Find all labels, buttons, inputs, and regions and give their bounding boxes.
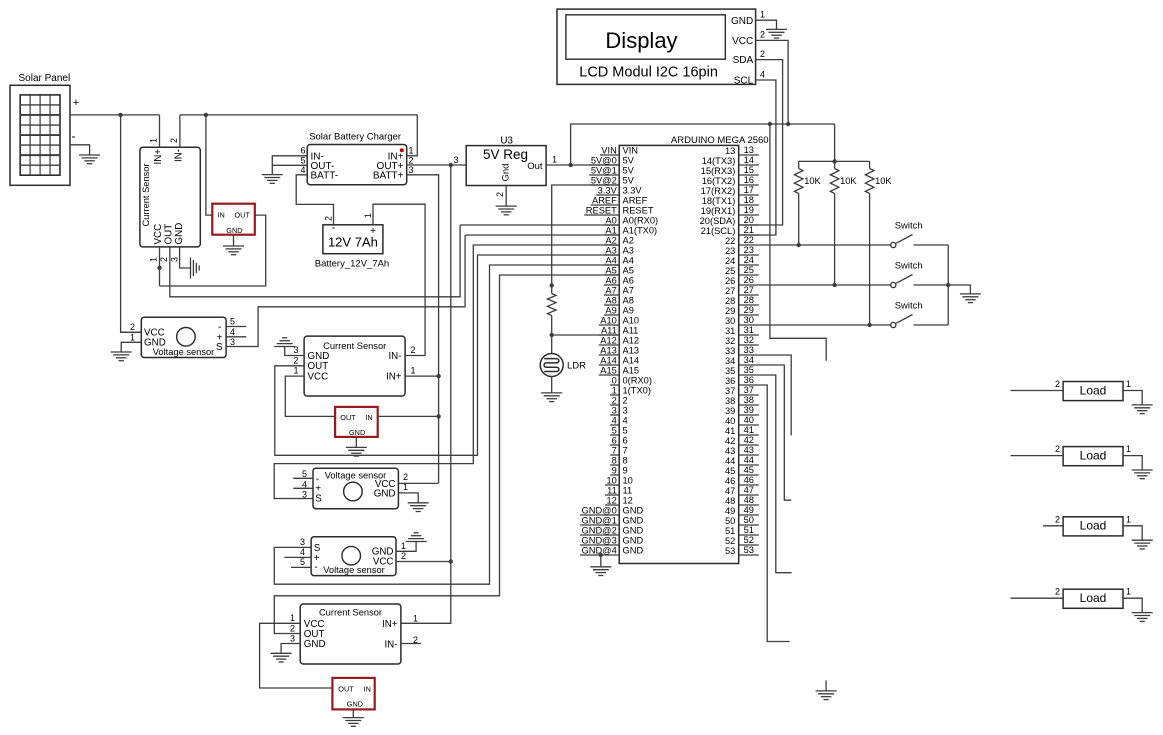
switch S3 label xyxy=(895,301,923,312)
svg-text:GND: GND xyxy=(347,700,363,709)
svg-text:33: 33 xyxy=(744,345,754,355)
svg-text:30: 30 xyxy=(744,315,754,325)
svg-text:46: 46 xyxy=(744,475,754,485)
svg-text:VIN: VIN xyxy=(601,146,617,156)
svg-text:4: 4 xyxy=(300,547,305,557)
display VCC wire to 5V rail xyxy=(756,40,789,124)
VS3 pin label VCC xyxy=(373,557,394,568)
wire pin row to switch S3 xyxy=(759,324,891,326)
CS3 pin 1 number xyxy=(290,613,295,623)
svg-text:1: 1 xyxy=(552,155,557,165)
VS1 pin 4 number xyxy=(230,327,235,337)
svg-text:SDA: SDA xyxy=(733,55,754,66)
wire A4 run + drop to VS3 S xyxy=(274,265,619,584)
M3 label GND xyxy=(347,700,363,709)
svg-text:35: 35 xyxy=(725,366,735,376)
VS2 pin label - (minus) xyxy=(316,474,319,485)
wire R1 bottom to switch row xyxy=(798,194,800,246)
svg-text:A4: A4 xyxy=(623,256,634,266)
ground M1 GND xyxy=(223,246,244,255)
svg-text:1: 1 xyxy=(1126,379,1131,389)
switch S2 label xyxy=(895,261,923,272)
VS1 circle xyxy=(177,328,196,347)
5V reg pin 2 number xyxy=(495,192,505,197)
svg-text:A15: A15 xyxy=(600,366,617,376)
wire CS2 GND to ground xyxy=(285,347,304,356)
svg-text:3: 3 xyxy=(454,155,459,165)
svg-text:Current Sensor: Current Sensor xyxy=(323,341,386,351)
svg-text:1: 1 xyxy=(1126,587,1131,597)
CS3 title xyxy=(319,608,382,618)
svg-text:48: 48 xyxy=(744,495,754,505)
svg-text:1: 1 xyxy=(149,257,159,262)
switch S1 label xyxy=(895,221,923,232)
switch S1 lever xyxy=(896,235,912,244)
VS2 pin label VCC xyxy=(375,479,396,490)
5V reg GND stem xyxy=(505,186,507,207)
VS2 pin 3 number xyxy=(302,489,307,499)
resistor R4 (LDR pullup) xyxy=(547,294,556,316)
load LD2 label xyxy=(1080,448,1107,462)
VS2 pin label S xyxy=(315,493,322,504)
svg-text:A11: A11 xyxy=(601,326,617,336)
node junction OUT+ / 5V net xyxy=(449,163,453,167)
VS3 circle xyxy=(342,546,361,565)
resistor R2 label 10K xyxy=(840,176,857,186)
load LD4 pin 2 number xyxy=(1055,587,1060,597)
svg-text:40: 40 xyxy=(744,415,754,425)
svg-text:1: 1 xyxy=(760,10,765,20)
svg-text:36: 36 xyxy=(725,376,735,386)
svg-text:22: 22 xyxy=(744,235,754,245)
wire charger IN- to ground xyxy=(272,156,307,175)
VS3 pin label GND xyxy=(372,547,394,558)
CS2 pin label VCC xyxy=(308,371,329,382)
load LD3 pin 2 number xyxy=(1055,514,1060,524)
svg-text:Switch: Switch xyxy=(895,301,923,312)
svg-text:6: 6 xyxy=(300,146,305,156)
svg-text:A13: A13 xyxy=(600,346,617,356)
charger pin label BATT- xyxy=(311,171,339,182)
5V reg U3 designator xyxy=(500,136,513,147)
regulator module M2 box xyxy=(335,407,378,437)
load LD1 label xyxy=(1080,383,1107,397)
svg-text:2: 2 xyxy=(293,355,298,365)
solar panel PV1 xyxy=(10,85,70,185)
svg-text:5V@1: 5V@1 xyxy=(591,166,617,176)
svg-text:3: 3 xyxy=(230,337,235,347)
VS3 pin 1 number xyxy=(401,541,406,551)
svg-text:Switch: Switch xyxy=(895,221,923,232)
svg-text:12V 7Ah: 12V 7Ah xyxy=(328,235,378,250)
svg-text:A5: A5 xyxy=(623,266,634,276)
svg-text:A10: A10 xyxy=(600,316,617,326)
svg-text:-: - xyxy=(314,562,317,573)
svg-text:39: 39 xyxy=(744,405,754,415)
svg-text:26: 26 xyxy=(744,275,754,285)
svg-text:S: S xyxy=(315,493,322,504)
svg-text:7: 7 xyxy=(623,446,628,456)
svg-text:IN: IN xyxy=(365,413,372,422)
ground isolated (bottom right) xyxy=(816,680,837,699)
VS2 pin 1 number xyxy=(403,482,408,492)
svg-text:26: 26 xyxy=(725,276,735,286)
load LD4 label xyxy=(1080,591,1107,605)
load LD1 box xyxy=(1063,382,1123,401)
wire to load LD1 xyxy=(1011,390,1064,392)
svg-text:2: 2 xyxy=(324,216,334,221)
svg-text:LCD Modul I2C 16pin: LCD Modul I2C 16pin xyxy=(579,65,718,81)
wire pin 35 dangling xyxy=(759,375,792,573)
node junction BATT+ / CS2 IN+ xyxy=(436,374,440,378)
svg-text:Battery_12V_7Ah: Battery_12V_7Ah xyxy=(315,259,389,270)
switch S3 right contact xyxy=(914,324,949,326)
svg-text:GND: GND xyxy=(349,428,365,437)
VS1 pin 5 number xyxy=(230,317,235,327)
resistor R1 10K lead top xyxy=(798,161,800,168)
CS1 pin 2 bottom number xyxy=(159,257,169,262)
switch S2 right contact xyxy=(914,284,949,286)
M2 label IN xyxy=(365,413,372,422)
svg-text:A12: A12 xyxy=(600,336,617,346)
CS3 pin label IN- xyxy=(384,639,397,650)
svg-text:IN: IN xyxy=(364,685,371,694)
svg-text:23: 23 xyxy=(744,245,754,255)
display outer box xyxy=(557,9,756,84)
svg-text:2: 2 xyxy=(403,472,408,482)
svg-text:42: 42 xyxy=(744,435,754,445)
VS1 pin label S xyxy=(216,342,223,353)
svg-text:A2: A2 xyxy=(605,236,616,246)
svg-text:10: 10 xyxy=(606,476,616,486)
arduino right pin labels and stubs xyxy=(700,145,759,556)
resistor R1 10K xyxy=(794,169,803,194)
voltage sensor VS1 box xyxy=(141,317,226,357)
node junction A11 tap xyxy=(550,333,554,337)
svg-text:2: 2 xyxy=(612,396,617,406)
svg-text:4: 4 xyxy=(612,416,617,426)
svg-text:27: 27 xyxy=(744,285,754,295)
svg-text:4: 4 xyxy=(300,165,305,175)
svg-text:LDR: LDR xyxy=(567,361,586,372)
VS1 pin 2 number xyxy=(130,322,135,332)
svg-text:17(RX2): 17(RX2) xyxy=(701,186,736,196)
svg-text:A8: A8 xyxy=(623,296,634,306)
load LD3 pin 1 number xyxy=(1126,514,1131,524)
ground load LD4 xyxy=(1132,613,1153,622)
svg-text:A5: A5 xyxy=(605,266,616,276)
svg-text:2: 2 xyxy=(1055,379,1060,389)
svg-text:IN+: IN+ xyxy=(382,619,398,630)
svg-text:33: 33 xyxy=(725,346,735,356)
wire M1 GND stem xyxy=(233,235,235,246)
VS2 pin stub 5 (dangling) xyxy=(293,477,313,479)
battery value 12V 7Ah xyxy=(328,235,378,250)
svg-text:41: 41 xyxy=(725,426,735,436)
switch S3 contact circle xyxy=(891,322,896,327)
svg-text:47: 47 xyxy=(725,486,735,496)
svg-text:5V@2: 5V@2 xyxy=(591,176,617,186)
svg-text:28: 28 xyxy=(725,296,735,306)
CS2 pin label IN+ xyxy=(386,372,402,383)
arduino mega 2560 title xyxy=(671,135,769,146)
svg-text:21: 21 xyxy=(744,225,754,235)
svg-text:1: 1 xyxy=(363,213,373,218)
VS2 pin label GND xyxy=(374,489,396,500)
svg-text:19(RX1): 19(RX1) xyxy=(701,206,736,216)
svg-text:3: 3 xyxy=(623,406,628,416)
wire CS1 OUT down to A0 run xyxy=(170,225,460,297)
svg-text:Display: Display xyxy=(605,28,677,53)
svg-text:AREF: AREF xyxy=(623,196,648,206)
svg-text:43: 43 xyxy=(725,446,735,456)
CS1 pin label VCC xyxy=(153,224,164,245)
ground arduino GND xyxy=(590,567,611,576)
svg-text:49: 49 xyxy=(725,506,735,516)
svg-text:45: 45 xyxy=(744,465,754,475)
VS1 pin 1 number xyxy=(130,332,135,342)
CS1 pin 1 top number xyxy=(148,138,158,143)
wire load LD2 to ground xyxy=(1123,456,1142,470)
VS3 pin label + (plus) xyxy=(314,553,320,564)
svg-text:Gnd: Gnd xyxy=(501,164,512,182)
svg-text:8: 8 xyxy=(623,456,628,466)
wire pin row to switch S1 xyxy=(759,244,891,246)
ground switches xyxy=(960,294,981,303)
node junction on CS1 VCC wire xyxy=(157,266,161,270)
wire switch rail to ground xyxy=(948,285,970,294)
solar battery charger U2 box xyxy=(307,145,407,185)
wire solar+ to CS1 IN+ xyxy=(159,115,161,140)
charger pin 2 number xyxy=(409,155,414,165)
load LD2 pin 1 number xyxy=(1126,444,1131,454)
svg-text:1: 1 xyxy=(148,138,158,143)
svg-text:31: 31 xyxy=(725,326,735,336)
svg-text:GND: GND xyxy=(623,546,644,556)
load LD4 box xyxy=(1063,589,1123,608)
VS1 pin stub 4 (dangling) xyxy=(226,336,246,338)
VS1 pin stub VCC xyxy=(121,331,141,333)
VS1 pin 3 number xyxy=(230,337,235,347)
CS2 pin 2 number xyxy=(293,355,298,365)
svg-text:SCL: SCL xyxy=(734,76,754,87)
svg-text:16: 16 xyxy=(744,175,754,185)
display pin 2 number (VCC) xyxy=(760,30,765,40)
arduino left pin labels and stubs xyxy=(580,146,658,556)
5V reg title xyxy=(483,147,528,162)
svg-text:A8: A8 xyxy=(605,296,616,306)
svg-text:A0(RX0): A0(RX0) xyxy=(623,216,659,226)
wire switch common rail xyxy=(947,245,949,325)
svg-text:51: 51 xyxy=(725,526,735,536)
svg-text:Out: Out xyxy=(527,161,543,172)
svg-text:39: 39 xyxy=(725,406,735,416)
svg-text:2: 2 xyxy=(169,138,179,143)
ground 5V reg xyxy=(496,206,517,215)
VS2 pin 2 number xyxy=(403,472,408,482)
CS2 pin 1 number xyxy=(293,366,298,376)
display title xyxy=(605,28,677,53)
resistor R2 10K lead top xyxy=(834,161,836,168)
svg-text:A2: A2 xyxy=(623,236,634,246)
svg-text:Switch: Switch xyxy=(895,261,923,272)
svg-text:41: 41 xyxy=(744,425,754,435)
ground CS2 GND (inverted) xyxy=(274,338,295,347)
svg-text:5V: 5V xyxy=(623,156,635,166)
node junction R3 / switch row xyxy=(867,323,871,327)
svg-text:A6: A6 xyxy=(605,276,616,286)
wire 5V net vertical (OUT+ down to CS3 IN+) xyxy=(401,165,451,623)
load LD3 box xyxy=(1063,517,1123,536)
svg-text:GND: GND xyxy=(623,536,644,546)
svg-text:1: 1 xyxy=(411,366,416,376)
load LD3 label xyxy=(1080,519,1107,533)
resistor R3 10K xyxy=(865,169,874,194)
svg-text:45: 45 xyxy=(725,466,735,476)
wire resistor top rail xyxy=(799,160,870,162)
svg-text:2: 2 xyxy=(130,322,135,332)
svg-text:+: + xyxy=(73,97,79,109)
charger pin label IN+ xyxy=(388,151,404,162)
svg-text:1(TX0): 1(TX0) xyxy=(623,386,651,396)
5V reg Out label xyxy=(527,161,543,172)
CS3 pin 3 number xyxy=(290,634,295,644)
wire A5 run + drop to CS3 OUT xyxy=(274,275,619,634)
wire charger OUT- join xyxy=(272,164,307,166)
svg-text:OUT: OUT xyxy=(338,685,354,694)
svg-text:4: 4 xyxy=(623,416,628,426)
ground charger IN-/OUT- xyxy=(262,175,283,184)
VS1 pin label VCC xyxy=(144,328,165,339)
load LD4 pin 1 number xyxy=(1126,587,1131,597)
wire VS3 VCC to 5V net xyxy=(396,561,451,563)
CS3 pin label OUT xyxy=(304,629,325,640)
resistor R2 10K xyxy=(830,169,839,194)
VS3 pin label - (minus) xyxy=(314,562,317,573)
svg-text:1: 1 xyxy=(413,614,418,624)
svg-text:2: 2 xyxy=(1055,444,1060,454)
regulator module M1 box xyxy=(212,204,255,235)
charger pin label OUT- xyxy=(311,161,335,172)
svg-text:A1: A1 xyxy=(605,226,616,236)
svg-text:0(RX0): 0(RX0) xyxy=(623,376,652,386)
wire battery plus to CS2 IN- xyxy=(373,204,425,355)
svg-text:23: 23 xyxy=(725,246,735,256)
svg-text:19: 19 xyxy=(744,205,754,215)
svg-text:2: 2 xyxy=(290,623,295,633)
svg-text:A12: A12 xyxy=(623,336,640,346)
charger pin label BATT+ xyxy=(373,171,404,182)
CS1 label Current Sensor xyxy=(141,163,151,226)
M2 label GND xyxy=(349,428,365,437)
battery label Battery_12V_7Ah xyxy=(315,259,389,270)
wire 5V rail top xyxy=(571,124,835,165)
wire pin 36 dangling xyxy=(759,385,790,642)
display GND stub+wire xyxy=(756,20,777,29)
svg-text:9: 9 xyxy=(612,466,617,476)
svg-text:27: 27 xyxy=(725,286,735,296)
svg-text:A3: A3 xyxy=(623,246,634,256)
svg-text:RESET: RESET xyxy=(586,206,617,216)
regulator module M3 box xyxy=(332,678,374,710)
svg-text:10K: 10K xyxy=(875,176,892,186)
battery plus terminal xyxy=(370,226,376,237)
svg-text:15(RX3): 15(RX3) xyxy=(701,166,736,176)
current sensor CS1 box xyxy=(140,147,200,247)
svg-text:A3: A3 xyxy=(605,246,616,256)
VS2 pin 5 number xyxy=(302,469,307,479)
svg-text:A9: A9 xyxy=(605,306,616,316)
svg-text:5: 5 xyxy=(612,426,617,436)
wire VS2 GND to ground xyxy=(398,493,418,503)
charger pin 6 number xyxy=(300,146,305,156)
svg-text:GND: GND xyxy=(174,223,185,245)
wire CS3 GND to ground xyxy=(281,644,300,654)
5V reg out pin 1 number xyxy=(552,155,557,165)
ground CS3 GND xyxy=(271,653,292,662)
node junction 5V net / VS3 VCC xyxy=(449,559,453,563)
svg-text:38: 38 xyxy=(744,395,754,405)
LDR label xyxy=(567,361,586,372)
wire charger OUT+ to 5V reg xyxy=(407,164,467,166)
wire CS3 VCC to maroon M3 OUT xyxy=(260,623,333,688)
svg-text:Load: Load xyxy=(1080,591,1107,605)
svg-text:-: - xyxy=(332,222,336,234)
svg-text:49: 49 xyxy=(744,505,754,515)
node junction resistor chain top xyxy=(550,283,554,287)
arduino GND@4 junction dot xyxy=(599,553,603,557)
svg-text:5: 5 xyxy=(230,317,235,327)
svg-text:7: 7 xyxy=(612,446,617,456)
svg-text:A7: A7 xyxy=(605,286,616,296)
svg-text:GND@3: GND@3 xyxy=(582,536,617,546)
display pin label SCL xyxy=(734,76,754,87)
svg-text:5V: 5V xyxy=(623,176,635,186)
ground load LD2 xyxy=(1132,470,1153,479)
svg-text:47: 47 xyxy=(744,485,754,495)
node junction R1 / switch row xyxy=(797,243,801,247)
charger pin label OUT+ xyxy=(377,161,404,172)
svg-text:34: 34 xyxy=(744,355,754,365)
ground load LD3 xyxy=(1132,540,1153,549)
display SDA wire to pin20 xyxy=(739,60,783,225)
svg-text:Solar Panel: Solar Panel xyxy=(19,73,71,84)
svg-text:32: 32 xyxy=(725,336,735,346)
svg-text:0: 0 xyxy=(612,376,617,386)
CS1 pin label GND xyxy=(174,223,185,245)
charger red dot xyxy=(400,148,404,152)
CS2 title xyxy=(323,341,386,351)
CS3 pin label GND xyxy=(304,639,326,650)
CS2 pin 3 number xyxy=(293,345,298,355)
svg-text:3.3V: 3.3V xyxy=(598,186,618,196)
VS3 title xyxy=(323,565,385,575)
VS2 pin stub 4 (dangling) xyxy=(293,487,313,489)
charger pin label IN- xyxy=(311,151,324,162)
svg-text:GND: GND xyxy=(226,226,242,235)
svg-text:37: 37 xyxy=(725,386,735,396)
svg-text:35: 35 xyxy=(744,365,754,375)
svg-text:24: 24 xyxy=(744,255,754,265)
svg-text:52: 52 xyxy=(744,535,754,545)
svg-text:5: 5 xyxy=(300,155,305,165)
svg-text:25: 25 xyxy=(744,265,754,275)
ground LDR xyxy=(541,393,562,402)
VS2 circle xyxy=(344,482,363,501)
VS1 pin stub 5 (dangling) xyxy=(226,326,246,328)
svg-text:10K: 10K xyxy=(840,176,857,186)
svg-text:3: 3 xyxy=(290,634,295,644)
